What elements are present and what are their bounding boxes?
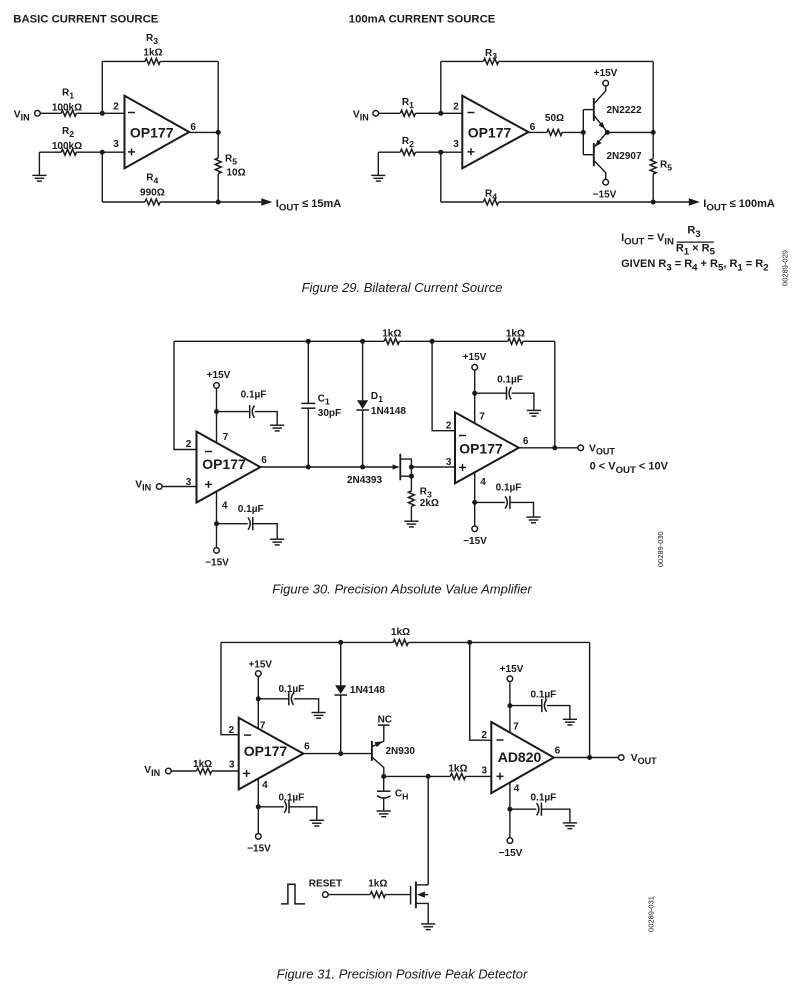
wire emitter node to right rail xyxy=(607,131,653,133)
op-amp minus input mark circuit2 xyxy=(468,112,475,114)
wire base rail vertical xyxy=(582,110,584,155)
wire output to right rail circuit1 xyxy=(189,131,218,133)
wire feedback drop figure31 right xyxy=(589,642,591,757)
wire VIN to 1k figure31 xyxy=(171,770,196,772)
svg-text:0.1µF: 0.1µF xyxy=(496,482,522,493)
node JFET source junction xyxy=(409,474,414,479)
wire pin4 to cap AD820 xyxy=(510,808,537,810)
node +15V terminal figure31 left xyxy=(255,671,261,677)
node pin7 bypass junction figure30 left xyxy=(214,409,219,414)
op-amp minus input mark circuit1 xyxy=(128,112,135,114)
op-amp U5 OP177 figure31 xyxy=(239,718,304,790)
capacitor 0.1uF pin7 AD820 xyxy=(541,699,543,712)
svg-text:2: 2 xyxy=(453,101,459,112)
op-amp plus mark figure31 left xyxy=(243,772,250,774)
wire output figure30 right xyxy=(519,447,578,449)
node -15V terminal AD820 xyxy=(507,838,513,844)
svg-text:1kΩ: 1kΩ xyxy=(448,763,467,774)
wire R1 to node 2 xyxy=(76,112,124,114)
svg-text:OP177: OP177 xyxy=(130,124,174,140)
node D1 top junction xyxy=(360,339,365,344)
wire pin4 to cap figure30 right xyxy=(475,501,505,503)
svg-text:6: 6 xyxy=(555,745,561,756)
wire output row figure30 xyxy=(260,466,398,468)
op-amp plus mark figure30 left xyxy=(205,483,212,485)
wire output arrow circuit1 xyxy=(218,201,261,203)
ground pin7 figure31 left xyxy=(312,713,326,719)
svg-text:−15V: −15V xyxy=(499,848,523,859)
svg-text:6: 6 xyxy=(530,122,536,133)
ground pin4 figure31 left xyxy=(310,820,324,826)
node D1 bottom junction xyxy=(360,465,365,470)
wire feedback drop figure30 right xyxy=(554,341,556,448)
wire base stub Q1 xyxy=(583,109,594,111)
svg-text:7: 7 xyxy=(513,722,519,733)
transistor M1 reset MOSFET xyxy=(410,886,412,905)
ground pin4 figure30 left xyxy=(270,539,284,545)
op-amp U4 OP177 figure30 right xyxy=(455,412,519,483)
node VOUT terminal figure30 xyxy=(578,445,584,451)
svg-text:0.1µF: 0.1µF xyxy=(531,793,557,804)
resistor R2 circuit2 xyxy=(400,149,415,155)
resistor R3 circuit1 xyxy=(145,58,160,64)
svg-text:0.1µF: 0.1µF xyxy=(241,389,267,400)
svg-text:3: 3 xyxy=(453,139,459,150)
svg-text:00289-029: 00289-029 xyxy=(781,250,790,286)
op-amp U6 AD820 xyxy=(491,722,554,793)
wire pin4 vertical figure30 left xyxy=(216,491,218,547)
node output junction AD820 xyxy=(587,755,592,760)
node output junction circuit1 xyxy=(216,130,221,135)
svg-text:+15V: +15V xyxy=(207,370,231,381)
node -15V terminal figure30 right xyxy=(472,526,478,532)
wire top rail figure31 xyxy=(221,641,393,643)
wire R2 to node circuit2 xyxy=(416,151,463,153)
svg-text:1kΩ: 1kΩ xyxy=(193,759,212,770)
wire pin4 vertical AD820 xyxy=(509,783,511,838)
wire pin4 vertical figure30 right xyxy=(474,472,476,526)
svg-text:+15V: +15V xyxy=(594,68,618,79)
resistor R3 circuit2 xyxy=(483,58,498,64)
node pin3 junction circuit1 xyxy=(100,150,105,155)
node pin4 bypass junction figure30 left xyxy=(214,521,219,526)
diode D1 1N4148 xyxy=(362,341,364,400)
node VIN terminal circuit1 xyxy=(35,111,41,117)
svg-text:4: 4 xyxy=(262,780,268,791)
svg-text:1N4148: 1N4148 xyxy=(371,406,406,417)
svg-text:2: 2 xyxy=(481,730,487,741)
op-amp plus input mark circuit1 xyxy=(128,151,135,153)
node VIN terminal figure30 xyxy=(156,484,162,490)
node pin4 bypass junction figure31 left xyxy=(256,804,261,809)
capacitor 0.1uF pin7 figure30 left xyxy=(249,405,251,418)
node diode top junction figure31 xyxy=(338,640,343,645)
node +15V terminal figure30 right xyxy=(472,365,478,371)
wire top rail circuit1 xyxy=(102,60,145,62)
wire right rail circuit1 xyxy=(217,61,219,158)
resistor R5 circuit1 xyxy=(215,158,221,173)
wire feedback left vertical circuit1 xyxy=(101,61,103,113)
wire drain to pin3 figure30 right xyxy=(411,466,455,468)
wire 1k to mosfet gate xyxy=(385,894,410,896)
wire left vertical to pin2 figure30 xyxy=(174,341,197,449)
node JFET drain junction xyxy=(409,465,414,470)
resistor 1k ohm feedback1 figure30 xyxy=(384,338,399,344)
resistor R4 circuit2 xyxy=(483,199,498,205)
ground MOSFET source xyxy=(421,924,435,930)
wire cap to ground pin4 AD820 xyxy=(541,809,570,823)
wire cap to ground pin7 figure31 left xyxy=(294,699,319,713)
svg-text:7: 7 xyxy=(479,412,485,423)
node pin4 bypass junction AD820 xyxy=(507,807,512,812)
resistor R1 circuit1 xyxy=(61,110,76,116)
svg-text:2N4393: 2N4393 xyxy=(347,475,382,486)
node C1 bottom junction xyxy=(306,465,311,470)
svg-text:2N2222: 2N2222 xyxy=(607,105,642,116)
svg-text:7: 7 xyxy=(223,432,229,443)
svg-text:2N2907: 2N2907 xyxy=(607,151,642,162)
ground R3 figure30 xyxy=(404,521,418,527)
node -15V terminal circuit2 xyxy=(603,179,609,185)
node VIN terminal circuit2 xyxy=(373,111,379,117)
svg-text:NC: NC xyxy=(378,714,392,725)
node pin2 top junction figure31 right xyxy=(467,640,472,645)
svg-text:1kΩ: 1kΩ xyxy=(391,627,410,638)
svg-text:0.1µF: 0.1µF xyxy=(497,375,523,386)
node Q1 emitter junction xyxy=(605,130,610,135)
ground pin7 figure30 left xyxy=(270,425,284,431)
op-amp minus mark figure31 left xyxy=(244,734,251,736)
node pin3 junction circuit2 xyxy=(438,150,443,155)
wire right rail circuit2 xyxy=(652,61,654,158)
node +15V terminal figure30 left xyxy=(214,383,220,389)
svg-text:990Ω: 990Ω xyxy=(140,188,165,199)
capacitor 0.1uF pin4 AD820 xyxy=(540,803,542,816)
wire VIN to pin3 figure30 xyxy=(162,486,196,488)
wire pin2 drop figure31 right xyxy=(470,642,492,740)
wire pin4 to cap figure31 left xyxy=(258,806,284,808)
wire pin7 vertical figure31 left xyxy=(257,677,259,729)
wire cap to ground pin7 AD820 xyxy=(547,706,570,720)
capacitor CH xyxy=(383,776,385,791)
transistor Q3 2N930 xyxy=(371,741,373,761)
svg-text:BASIC CURRENT SOURCE: BASIC CURRENT SOURCE xyxy=(13,14,158,26)
svg-text:50Ω: 50Ω xyxy=(545,113,564,124)
wire pin7 to cap figure31 left xyxy=(258,698,289,700)
node emitter junction figure31 xyxy=(381,774,386,779)
svg-text:2kΩ: 2kΩ xyxy=(420,498,439,509)
wire pin7 vertical figure30 left xyxy=(216,388,218,443)
capacitor 0.1uF pin4 figure31 left xyxy=(288,800,290,813)
svg-text:3: 3 xyxy=(229,760,235,771)
svg-text:30pF: 30pF xyxy=(318,408,341,419)
resistor R2 circuit1 xyxy=(61,149,76,155)
node pin7 bypass junction figure30 right xyxy=(472,391,477,396)
ground circuit1 input xyxy=(38,152,40,175)
node hold junction figure31 xyxy=(426,774,431,779)
svg-text:10Ω: 10Ω xyxy=(227,168,246,179)
transistor J1 2N4393 JFET xyxy=(393,464,400,469)
wire R1 to node circuit2 xyxy=(416,112,463,114)
node pin2 junction circuit1 xyxy=(100,111,105,116)
svg-text:4: 4 xyxy=(222,501,228,512)
wire output to 50ohm circuit2 xyxy=(528,131,547,133)
svg-text:100kΩ: 100kΩ xyxy=(52,141,82,152)
op-amp U1 OP177 circuit1 xyxy=(125,96,190,169)
svg-text:4: 4 xyxy=(480,477,486,488)
wire VIN to R1 circuit2 xyxy=(379,112,401,114)
wire ground to R2 circuit2 xyxy=(378,151,400,153)
svg-text:6: 6 xyxy=(261,455,267,466)
wire pin3 node down to bottom rail circuit2 xyxy=(440,152,442,202)
svg-text:00289-030: 00289-030 xyxy=(656,531,665,567)
svg-text:+15V: +15V xyxy=(500,664,524,675)
svg-text:0.1µF: 0.1µF xyxy=(279,792,305,803)
wire cap to ground pin7 figure30 right xyxy=(512,393,534,410)
wire pin2 drop figure30 right xyxy=(432,341,455,430)
svg-text:6: 6 xyxy=(190,122,196,133)
svg-text:1kΩ: 1kΩ xyxy=(382,328,401,339)
wire RESET to 1k xyxy=(328,894,370,896)
wire emitter to 1k figure31 xyxy=(384,775,451,777)
transistor Q2 2N2907 PNP xyxy=(593,143,595,166)
svg-text:2: 2 xyxy=(229,725,235,736)
capacitor 0.1uF pin4 figure30 left xyxy=(252,517,254,530)
node diode junction figure31 xyxy=(338,751,343,756)
svg-text:3: 3 xyxy=(482,765,488,776)
diode D2 1N4148 figure31 xyxy=(340,642,342,685)
svg-text:RESET: RESET xyxy=(309,879,342,890)
svg-text:−15V: −15V xyxy=(205,558,229,569)
node pin7 bypass junction figure31 left xyxy=(256,696,261,701)
capacitor 0.1uF pin7 figure31 left xyxy=(288,692,290,705)
svg-text:Figure 31. Precision Positive: Figure 31. Precision Positive Peak Detec… xyxy=(277,967,528,982)
wire cap to ground pin4 figure30 left xyxy=(253,524,277,540)
svg-text:6: 6 xyxy=(304,741,310,752)
node bottom junction circuit2 xyxy=(651,200,656,205)
op-amp U3 OP177 figure30 left xyxy=(197,432,261,503)
svg-text:OP177: OP177 xyxy=(459,441,503,457)
svg-text:+15V: +15V xyxy=(463,352,487,363)
wire 50ohm to base junction xyxy=(562,131,583,133)
wire top rail circuit2 xyxy=(441,60,484,62)
svg-text:1kΩ: 1kΩ xyxy=(143,48,162,59)
node RESET terminal xyxy=(323,892,329,898)
resistor 1k ohm hold figure31 xyxy=(450,773,465,779)
svg-text:−15V: −15V xyxy=(463,536,487,547)
wire left vertical to top rail circuit2 xyxy=(440,61,442,113)
wire bottom rail circuit2 xyxy=(441,201,484,203)
wire pin3 node down to bottom rail xyxy=(101,152,103,202)
svg-text:2: 2 xyxy=(446,420,452,431)
wire 1k to pin3 figure31 xyxy=(212,770,239,772)
svg-text:1kΩ: 1kΩ xyxy=(368,879,387,890)
svg-text:Figure 29. Bilateral Current S: Figure 29. Bilateral Current Source xyxy=(302,280,503,295)
node VOUT terminal figure31 xyxy=(618,755,624,761)
wire pin7 vertical figure30 right xyxy=(474,370,476,423)
wire output AD820 xyxy=(554,757,619,759)
svg-text:2: 2 xyxy=(186,439,192,450)
wire cap to ground pin4 figure30 right xyxy=(510,502,534,517)
op-amp plus mark figure30 right xyxy=(459,466,466,468)
wire bottom rail circuit1 xyxy=(102,201,145,203)
resistor 1k ohm reset xyxy=(370,892,385,898)
ground pin4 AD820 xyxy=(563,823,577,829)
resistor 1k ohm feedback figure31 xyxy=(393,639,408,645)
svg-text:Figure 30. Precision Absolute: Figure 30. Precision Absolute Value Ampl… xyxy=(272,581,532,596)
ground CH xyxy=(377,811,391,817)
wire top rail figure30 xyxy=(174,340,384,342)
node pin2 junction circuit2 xyxy=(438,111,443,116)
wire pin4 vertical figure31 left xyxy=(257,779,259,834)
wire 1k to pin3 AD820 xyxy=(465,775,491,777)
svg-text:−15V: −15V xyxy=(247,844,271,855)
svg-text:00289-031: 00289-031 xyxy=(647,896,656,932)
wire pin7 to bypass cap figure30 left xyxy=(217,411,250,413)
capacitor C1 30pF xyxy=(307,341,309,403)
wire pin7 vertical AD820 xyxy=(509,682,511,733)
svg-text:3: 3 xyxy=(113,139,119,150)
wire cap to ground pin4 figure31 left xyxy=(289,807,317,821)
wire ground to R2 xyxy=(39,151,61,153)
wire pin4 to bypass cap figure30 left xyxy=(217,523,248,525)
svg-text:2N930: 2N930 xyxy=(386,746,416,757)
wire pin7 to cap figure30 right xyxy=(475,392,507,394)
wire pin7 to cap AD820 xyxy=(510,705,542,707)
svg-text:3: 3 xyxy=(446,457,452,468)
wire cap to ground pin7 figure30 left xyxy=(255,412,278,426)
svg-text:100kΩ: 100kΩ xyxy=(52,102,82,113)
op-amp minus mark figure30 left xyxy=(205,451,212,453)
node bottom output junction circuit1 xyxy=(216,200,221,205)
ground circuit2 input xyxy=(377,152,379,175)
resistor R1 circuit2 xyxy=(400,110,415,116)
capacitor 0.1uF pin7 figure30 right xyxy=(506,387,508,400)
svg-text:−15V: −15V xyxy=(593,190,617,201)
svg-text:100mA CURRENT SOURCE: 100mA CURRENT SOURCE xyxy=(349,14,496,26)
svg-text:0.1µF: 0.1µF xyxy=(238,504,264,515)
svg-text:1N4148: 1N4148 xyxy=(350,685,385,696)
svg-text:0.1µF: 0.1µF xyxy=(531,689,557,700)
resistor 50 ohm circuit2 xyxy=(547,129,562,135)
node C1 top junction xyxy=(306,339,311,344)
svg-text:OP177: OP177 xyxy=(468,124,512,140)
node pin2 top junction figure30 right xyxy=(430,339,435,344)
svg-text:OP177: OP177 xyxy=(244,743,288,759)
svg-text:0.1µF: 0.1µF xyxy=(279,684,305,695)
op-amp plus input mark circuit2 xyxy=(468,151,475,153)
node +15V terminal AD820 xyxy=(507,676,513,682)
svg-text:7: 7 xyxy=(260,720,266,731)
wire VIN to R1 xyxy=(40,112,61,114)
node VIN terminal figure31 xyxy=(166,768,172,774)
wire left vertical to pin2 figure31 xyxy=(221,642,239,734)
resistor R5 circuit2 xyxy=(650,159,656,174)
op-amp U2 OP177 circuit2 xyxy=(462,96,528,169)
resistor 1k ohm feedback2 figure30 xyxy=(508,338,523,344)
node output junction figure30 right xyxy=(552,445,557,450)
wire base stub Q2 xyxy=(583,154,594,156)
wire R3 to ground figure30 xyxy=(410,507,412,522)
svg-text:2: 2 xyxy=(113,101,119,112)
resistor R3 2k figure30 xyxy=(408,491,414,506)
node right rail output junction xyxy=(651,130,656,135)
ground pin7 AD820 xyxy=(563,719,577,725)
svg-text:1kΩ: 1kΩ xyxy=(506,328,525,339)
op-amp minus mark figure30 right xyxy=(459,435,466,437)
svg-text:4: 4 xyxy=(514,784,520,795)
node +15V terminal circuit2 xyxy=(603,80,609,86)
ground pin7 figure30 right xyxy=(527,410,541,416)
resistor 1k ohm input figure31 xyxy=(197,768,212,774)
reset pulse symbol xyxy=(281,884,305,904)
wire R2 to node 3 xyxy=(76,151,124,153)
node -15V terminal figure31 left xyxy=(255,834,261,840)
svg-text:+15V: +15V xyxy=(248,659,272,670)
node -15V terminal figure30 left xyxy=(214,548,220,554)
op-amp plus mark AD820 xyxy=(497,775,504,777)
transistor Q1 2N2222 NPN xyxy=(593,98,595,121)
wire hold node down to mosfet drain xyxy=(427,776,429,885)
capacitor 0.1uF pin4 figure30 right xyxy=(509,496,511,509)
svg-text:6: 6 xyxy=(523,436,529,447)
op-amp minus mark AD820 xyxy=(497,739,504,741)
node pin7 bypass junction AD820 xyxy=(507,703,512,708)
wire output arrow circuit2 xyxy=(653,201,689,203)
resistor R4 circuit1 xyxy=(145,199,160,205)
wire output row figure31 xyxy=(303,753,372,755)
svg-text:AD820: AD820 xyxy=(498,749,542,765)
node pin4 bypass junction figure30 right xyxy=(472,500,477,505)
node base junction circuit2 xyxy=(581,130,586,135)
ground pin4 figure30 right xyxy=(526,517,540,523)
svg-text:OP177: OP177 xyxy=(202,456,246,472)
